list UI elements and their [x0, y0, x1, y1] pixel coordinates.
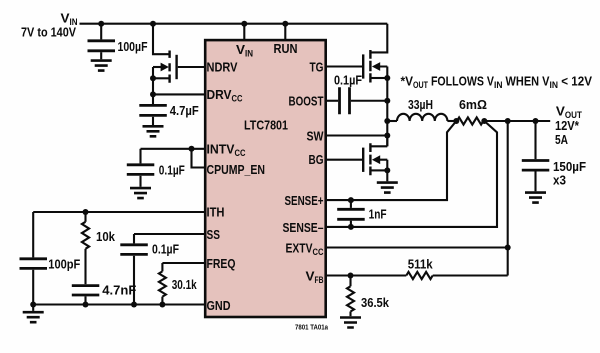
capacitor 4.7nF	[72, 283, 137, 305]
junction inductor left	[384, 118, 390, 124]
wire VIN pin stub	[243, 24, 245, 40]
junction SW pin	[384, 133, 390, 139]
junction vout sense	[505, 118, 511, 124]
svg-text:10k: 10k	[96, 229, 116, 244]
junction NDRV fet drain	[150, 21, 156, 27]
svg-text:0.1µF: 0.1µF	[334, 72, 362, 87]
wire DRVCC pin	[153, 93, 206, 95]
junction inductor right	[453, 118, 459, 124]
wire Q1 source down	[152, 78, 154, 104]
pin label DRVCC	[207, 87, 243, 105]
capacitor 0.1uF INTVCC	[127, 149, 185, 187]
svg-text:x3: x3	[553, 173, 566, 188]
junction input cap	[98, 21, 104, 27]
wire VOUT rail	[484, 120, 550, 122]
svg-text:LTC7801: LTC7801	[244, 118, 288, 133]
ground bottom rail	[23, 305, 44, 323]
junction ITH	[83, 209, 89, 215]
IC U1 LTC7801 body	[205, 40, 326, 317]
wire CPUMP_EN tie	[192, 149, 207, 168]
note text	[401, 74, 593, 92]
svg-text:36.5k: 36.5k	[361, 295, 390, 310]
pin label GND	[207, 298, 231, 313]
pin label BG	[309, 152, 324, 167]
junction VIN stub	[241, 21, 247, 27]
wire BOOST pin	[327, 100, 339, 102]
svg-text:BG: BG	[309, 152, 324, 167]
junction Q3 source	[384, 167, 390, 173]
svg-text:30.1k: 30.1k	[172, 277, 198, 292]
ground 150uF	[525, 193, 546, 203]
inductor 33uH	[387, 97, 456, 121]
svg-text:FREQ: FREQ	[207, 256, 236, 271]
wire EXTVCC pin	[327, 246, 508, 248]
svg-text:TG: TG	[310, 60, 324, 75]
junction rail 100pF	[30, 302, 36, 308]
wire VFB pin	[327, 274, 407, 276]
svg-text:SENSE+: SENSE+	[285, 193, 324, 208]
junction VFB divider	[348, 273, 354, 279]
wire INTVCC pin	[141, 148, 207, 150]
pin label BOOST	[289, 94, 324, 109]
svg-text:4.7µF: 4.7µF	[170, 103, 199, 118]
svg-text:ITH: ITH	[207, 205, 225, 220]
ground 36.5k	[340, 318, 361, 328]
pin label SW	[307, 129, 325, 144]
pin label SENSE+	[285, 193, 324, 208]
capacitor 100uF input	[88, 24, 148, 60]
pin label SENSE-	[283, 220, 324, 235]
wire TG gate	[327, 65, 363, 67]
svg-text:BOOST: BOOST	[289, 94, 324, 109]
pin label NDRV	[207, 60, 238, 75]
wire SENSE- pin	[327, 121, 498, 227]
svg-text:NDRV: NDRV	[207, 60, 238, 75]
svg-text:6mΩ: 6mΩ	[459, 97, 487, 112]
pin label EXTVCC	[286, 241, 324, 259]
svg-text:1nF: 1nF	[369, 206, 387, 221]
pin label TG	[310, 60, 324, 75]
wire BG gate	[327, 159, 363, 161]
junction vout cap	[533, 118, 539, 124]
label 7801 TA01a	[295, 325, 328, 332]
capacitor 100pF	[20, 257, 81, 305]
ground input cap	[91, 61, 112, 71]
svg-text:SS: SS	[207, 227, 221, 242]
capacitor 0.1uF BOOST	[334, 72, 387, 114]
svg-text:0.1µF: 0.1µF	[159, 163, 185, 178]
pin label INTVCC	[207, 142, 246, 160]
junction EXTVCC	[505, 245, 511, 251]
capacitor 4.7uF DRVCC	[139, 103, 199, 125]
svg-text:4.7nF: 4.7nF	[102, 283, 136, 298]
junction boost trunk	[384, 98, 390, 104]
junction rail 30.1k	[159, 302, 165, 308]
resistor 6mohm sense	[457, 97, 487, 125]
svg-text:33µH: 33µH	[408, 97, 433, 112]
capacitor 1nF sense	[337, 200, 386, 227]
wire V_IN top rail	[80, 23, 388, 25]
wire RUN pin stub	[284, 24, 286, 40]
resistor 511k	[406, 257, 507, 280]
wire SS pin	[134, 233, 206, 235]
svg-text:5A: 5A	[555, 132, 568, 147]
wire ITH pin	[33, 211, 206, 213]
pin label ITH	[207, 205, 225, 220]
pin label VIN	[236, 42, 253, 60]
wire SENSE+ pin	[327, 121, 457, 200]
ground Q3 source	[377, 170, 398, 192]
pin label VFB	[306, 269, 324, 287]
svg-text:SENSE–: SENSE–	[283, 220, 324, 235]
junction RUN stub	[282, 21, 288, 27]
junction SENSE+ 1nF	[348, 197, 354, 203]
junction Q2 source	[384, 75, 390, 81]
resistor 36.5k	[347, 276, 390, 317]
transistor Q2 TG nmos	[363, 24, 387, 83]
junction INTVCC	[189, 146, 195, 152]
wire NDRV gate to pin	[178, 66, 206, 68]
wire bottom gnd rail	[33, 303, 206, 305]
svg-text:RUN: RUN	[274, 41, 298, 56]
svg-text:CPUMP_EN: CPUMP_EN	[207, 162, 266, 177]
wire SW pin	[327, 134, 388, 136]
pin label RUN	[274, 41, 298, 56]
junction Q1 source	[150, 75, 156, 81]
node V_IN label	[21, 11, 78, 40]
ground 0.1uF INTVCC	[130, 188, 151, 198]
junction 6mohm right	[481, 118, 487, 124]
wire FREQ pin	[162, 262, 206, 264]
resistor 30.1k FREQ	[159, 263, 197, 305]
svg-text:0.1µF: 0.1µF	[152, 242, 179, 257]
pin label CPUMP_EN	[207, 162, 266, 177]
resistor 10k ITH	[82, 212, 116, 284]
svg-text:SW: SW	[307, 129, 325, 144]
node VOUT label	[555, 104, 582, 147]
ground 4.7uF	[143, 126, 164, 136]
svg-text:100µF: 100µF	[118, 39, 148, 54]
wire SW trunk	[386, 78, 388, 146]
transistor Q1 NDRV nmos	[153, 24, 177, 83]
svg-text:100pF: 100pF	[48, 257, 80, 272]
wire ITH left down	[32, 212, 34, 257]
pin label SS	[207, 227, 221, 242]
pin label FREQ	[207, 256, 236, 271]
svg-text:7801 TA01a: 7801 TA01a	[295, 325, 328, 332]
svg-text:7V to 140V: 7V to 140V	[21, 25, 76, 40]
junction SENSE- 1nF	[348, 224, 354, 230]
wire vout sense vertical	[507, 121, 509, 276]
junction DRVCC	[150, 91, 156, 97]
junction rail 4.7nF	[83, 302, 89, 308]
junction rail SS cap	[131, 302, 137, 308]
svg-text:GND: GND	[207, 298, 231, 313]
svg-text:511k: 511k	[408, 257, 434, 272]
transistor Q3 BG nmos	[363, 136, 387, 176]
capacitor 150uF output	[522, 121, 586, 191]
capacitor 0.1uF SS	[120, 234, 179, 305]
svg-text:12V*: 12V*	[555, 118, 580, 133]
